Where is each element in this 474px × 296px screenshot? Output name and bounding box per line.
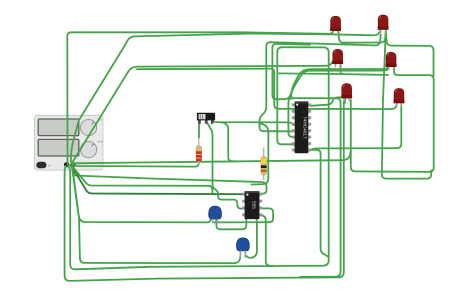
LED D5 xyxy=(342,84,352,102)
wire: PSU red terminal long rail y163->160 right, up V354 to LED5 right leg xyxy=(73,151,351,163)
svg-text:74HC4017: 74HC4017 xyxy=(303,116,308,139)
IC U2 555 xyxy=(242,191,262,219)
wire: LED5 right leg down V350.8, H172 right, V433.7 up, H75 left, hook to LED4 right leg xyxy=(351,66,434,172)
wire: 555 pin3 right loop down-left to cap1 left leg xyxy=(214,208,273,222)
LED D2 xyxy=(378,15,388,33)
wire: slide switch left pin to R1 top xyxy=(198,121,200,139)
wire: cap1 right leg down, H229 right, up to 555 pin4 left xyxy=(216,216,246,230)
wire: 4017 pinR1 to LED5 left leg xyxy=(311,97,346,106)
wire: fork from switch right pin down V228 to PSU rail xyxy=(219,122,235,161)
wire: rail y=68.5 from diag to V278 down, then H109 right to LED6 left leg xyxy=(137,69,397,109)
wire: H73 under LED3 legs to merge H75 xyxy=(279,73,388,75)
wire: LED6 right leg down V399, H148 left to 4017 pinR8 xyxy=(312,105,401,150)
wire: vertical behind R2 linking S-jog area down to H184 xyxy=(252,124,269,185)
wire: PSU down to (79.5,256) then H263 right, up to cap2 left leg xyxy=(73,168,241,263)
wire: slide switch right pin H122 to 4017 pin4L xyxy=(212,121,293,126)
wire: cap2 right leg up V257.5 under 555 xyxy=(246,218,257,258)
wire: PSU terminal to H185.5, corner down merging V212.5 xyxy=(72,166,212,193)
capacitor C2 xyxy=(240,250,242,258)
wire: PSU to H178-182 then down to 555 pin1 right xyxy=(70,165,267,194)
wire: LED3 right leg stub down to H73 xyxy=(340,65,342,74)
wire: PSU black terminal up left vertical to top rail, to LED1 left leg xyxy=(67,31,333,164)
wire: diagonal from H98 corner up to H70.6 rail to LED4 left leg xyxy=(291,65,389,98)
wire (darker): PSU diagonal to dark rail y=193.5 to 555 pin1 left xyxy=(71,165,243,194)
capacitor C1 xyxy=(209,206,222,223)
wire: corner-A line: 4017 pin5L S-jog up V266, H45 right to LED2 left underside xyxy=(260,35,381,132)
wire: LED2 right leg V384 down, H178.5 right, stub up V431 xyxy=(382,31,431,179)
wire: PSU terminal diagonal to (131,37) then long rail to LED2 left leg xyxy=(71,30,381,162)
svg-text:Amp: Amp xyxy=(98,140,104,144)
wire: R1 bottom lead left to PSU red terminal xyxy=(73,161,199,167)
resistor R2 xyxy=(261,148,267,181)
LED D1 xyxy=(330,16,340,34)
wire: PSU terminal diagonal to (135,66) then rail to LED3 left leg xyxy=(72,61,336,163)
resistor R1 2.2k xyxy=(196,138,202,165)
wire: slide switch middle pin diagonal, V214 down, S-jog to 555 pin3 left xyxy=(206,121,242,209)
wire: 4017 pin6L up V288, H98 right, V340.6 down to bottom rail merge xyxy=(288,98,340,277)
wire: LED2 right leg curve right H46 to V433.5 down xyxy=(386,31,434,76)
wire: V272 top merge, down, H99 stub xyxy=(272,44,389,99)
wire: LED1 right leg down, H42.6 right, up to LED2 right leg xyxy=(339,31,386,43)
IC U1 74HC4017 xyxy=(292,101,311,153)
slide switch S1 xyxy=(197,113,215,124)
LED D6 xyxy=(394,89,404,107)
svg-text:555: 555 xyxy=(252,201,257,209)
wire: PSU black terminal V64.5 down, H280 right, V343.8 up to LED5 left leg xyxy=(65,100,345,281)
wire: 555 pin4 right down V265.8 merging into H266 xyxy=(261,215,274,266)
LED D4 xyxy=(386,52,396,70)
power supply PS1 xyxy=(35,115,104,170)
wire: PSU down-diagonal to H222 to cap1 left leg xyxy=(72,167,211,222)
LED D3 xyxy=(333,49,343,67)
wire: 4017 bottom-right pin right then V321 down to join H266 xyxy=(311,150,328,257)
wire: PSU V70 down, H266 right, V329 up, H47 left, V277 down, H144 under IC to 4017 pin8L xyxy=(68,47,329,269)
svg-text:off: off xyxy=(48,164,51,168)
